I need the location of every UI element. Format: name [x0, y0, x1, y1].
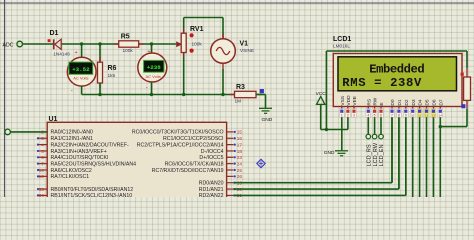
svg-text:RD0/AN20: RD0/AN20	[199, 181, 224, 187]
svg-text:100k: 100k	[123, 48, 134, 53]
svg-text:AC Volts: AC Volts	[146, 74, 161, 79]
svg-text:D5: D5	[425, 99, 431, 105]
svg-text:5: 5	[374, 114, 376, 118]
svg-text:D0: D0	[390, 99, 396, 105]
svg-text:RC0/IOCC0/T3CKI/T3G/T1CKI/SOSC: RC0/IOCC0/T3CKI/T3G/T1CKI/SOSCO	[132, 130, 224, 136]
svg-text:R3: R3	[236, 84, 245, 91]
svg-text:RA1/C12IN1-/AN1: RA1/C12IN1-/AN1	[51, 136, 93, 142]
svg-text:15: 15	[237, 130, 243, 135]
svg-text:-: -	[146, 85, 148, 91]
svg-text:+: +	[75, 50, 78, 56]
svg-text:14: 14	[39, 168, 45, 173]
svg-text:+238: +238	[147, 64, 161, 71]
svg-text:23: 23	[237, 155, 243, 160]
svg-text:RC6/IOCC6/TX/CK/AN18: RC6/IOCC6/TX/CK/AN18	[165, 161, 224, 167]
svg-text:VEE: VEE	[352, 96, 358, 106]
svg-text:18: 18	[237, 149, 243, 154]
svg-text:1N4148: 1N4148	[53, 51, 70, 56]
svg-text:GND: GND	[324, 150, 335, 156]
svg-text:RD2/AN22: RD2/AN22	[199, 193, 224, 197]
svg-text:2: 2	[347, 114, 349, 118]
svg-text:10: 10	[411, 114, 415, 118]
svg-text:D4: D4	[418, 99, 424, 105]
svg-text:LCD_RS: LCD_RS	[367, 144, 373, 166]
svg-text:D1: D1	[397, 99, 403, 105]
svg-text:D7: D7	[438, 99, 444, 105]
svg-text:16: 16	[237, 136, 243, 141]
svg-text:RMS = 238V: RMS = 238V	[342, 76, 422, 90]
svg-text:RB0/INT0/FLT0/SDI/SDA/SRI/AN12: RB0/INT0/FLT0/SDI/SDA/SRI/AN12	[51, 187, 134, 193]
svg-text:D+/IOCC5: D+/IOCC5	[199, 155, 223, 161]
svg-text:E: E	[379, 102, 385, 105]
svg-text:LCD_RW: LCD_RW	[373, 142, 379, 166]
svg-text:7: 7	[41, 161, 44, 166]
svg-text:RW: RW	[373, 97, 379, 105]
svg-text:D3: D3	[411, 99, 417, 105]
svg-text:33: 33	[39, 187, 45, 192]
svg-text:+: +	[147, 49, 150, 55]
svg-text:7: 7	[391, 114, 393, 118]
svg-text:VSS: VSS	[340, 96, 346, 106]
svg-text:R6: R6	[108, 65, 117, 72]
svg-text:RB1/INT1/SCK/SCL/C12IN3-/AN10: RB1/INT1/SCK/SCL/C12IN3-/AN10	[51, 193, 133, 197]
svg-text:RC1/IOCC1/CCP2/SOSCI: RC1/IOCC1/CCP2/SOSCI	[163, 136, 224, 142]
svg-text:-: -	[71, 89, 73, 95]
svg-text:RC2/CTPLS/P1A/CCP1/IOCC2/AN14: RC2/CTPLS/P1A/CCP1/IOCC2/AN14	[137, 142, 224, 148]
svg-text:14: 14	[439, 114, 443, 118]
svg-text:25: 25	[237, 168, 243, 173]
svg-text:1: 1	[341, 114, 343, 118]
svg-text:17: 17	[237, 142, 243, 147]
svg-text:RA2/C2IN+/AN2/DACOUT/VREF-: RA2/C2IN+/AN2/DACOUT/VREF-	[51, 142, 130, 148]
svg-text:RA3/C1IN+/AN3/VREF+: RA3/C1IN+/AN3/VREF+	[51, 149, 107, 155]
svg-text:AC Volts: AC Volts	[73, 76, 88, 81]
svg-text:VSINE: VSINE	[240, 48, 254, 53]
svg-text:9: 9	[405, 114, 407, 118]
svg-text:Embedded: Embedded	[369, 63, 424, 77]
svg-text:1k5: 1k5	[108, 73, 116, 78]
svg-text:4: 4	[41, 142, 44, 147]
svg-text:RA6/CLKO/OSC2: RA6/CLKO/OSC2	[51, 168, 92, 174]
svg-text:RV1: RV1	[190, 26, 204, 33]
svg-text:8: 8	[398, 114, 400, 118]
svg-text:RC7/RX/DT/SDO/IOCC7/AN19: RC7/RX/DT/SDO/IOCC7/AN19	[152, 168, 224, 174]
svg-text:RA4/C1OUT/SRQ/T0CKI: RA4/C1OUT/SRQ/T0CKI	[51, 155, 109, 161]
svg-text:3: 3	[353, 114, 355, 118]
svg-text:34: 34	[39, 193, 45, 197]
svg-text:VDD: VDD	[346, 95, 352, 106]
svg-text:12: 12	[425, 114, 429, 118]
svg-text:13: 13	[432, 114, 436, 118]
svg-text:RS: RS	[366, 99, 372, 106]
svg-text:V1: V1	[240, 40, 249, 47]
svg-text:6: 6	[41, 155, 44, 160]
svg-text:4: 4	[367, 114, 369, 118]
svg-text:R5: R5	[121, 33, 130, 40]
svg-text:U1: U1	[49, 116, 58, 123]
svg-text:6: 6	[380, 114, 382, 118]
svg-text:24: 24	[237, 161, 243, 166]
svg-text:D2: D2	[404, 99, 410, 105]
svg-text:VCC: VCC	[316, 91, 327, 97]
svg-text:RD1/AN21: RD1/AN21	[199, 187, 224, 193]
svg-text:5: 5	[41, 149, 44, 154]
svg-text:RA5/C2OUT/SRNQ/SS/HLVDIN/AN4: RA5/C2OUT/SRNQ/SS/HLVDIN/AN4	[51, 161, 137, 167]
svg-text:LCD1: LCD1	[333, 36, 351, 43]
svg-text:D6: D6	[432, 99, 438, 105]
svg-text:3: 3	[41, 136, 44, 141]
svg-text:1M: 1M	[235, 99, 242, 104]
svg-text:100k: 100k	[192, 41, 203, 46]
svg-text:RA7/CLKI/OSC1: RA7/CLKI/OSC1	[51, 174, 90, 180]
svg-text:26: 26	[237, 174, 243, 179]
svg-text:13: 13	[39, 174, 45, 179]
svg-text:D1: D1	[50, 30, 59, 37]
svg-text:11: 11	[418, 114, 421, 118]
svg-text:D-/IOCC4: D-/IOCC4	[201, 149, 224, 155]
svg-text:LM016L: LM016L	[333, 43, 350, 48]
svg-text:ADC: ADC	[3, 42, 14, 48]
svg-text:GND: GND	[262, 117, 273, 123]
svg-text:+3.52: +3.52	[72, 66, 90, 73]
svg-text:RA0/C12IN0-/AN0: RA0/C12IN0-/AN0	[51, 130, 93, 136]
svg-text:LCD_EN: LCD_EN	[379, 144, 385, 166]
